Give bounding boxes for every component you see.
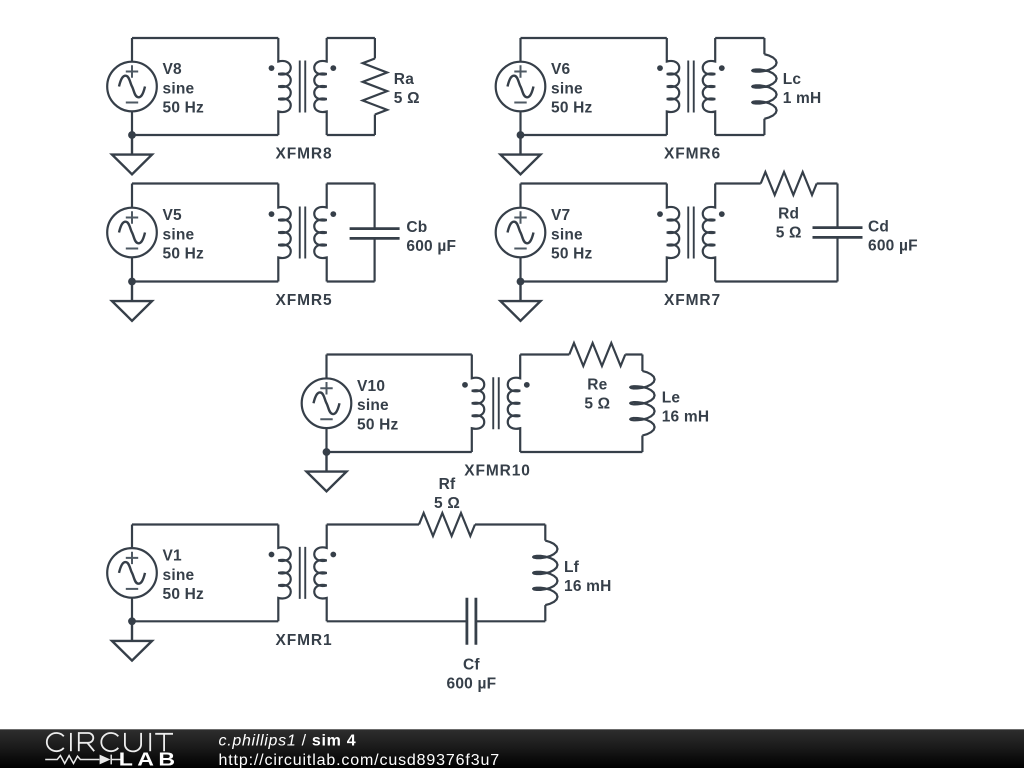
node: source negative junction — [128, 617, 136, 625]
label Lc value — [783, 71, 822, 107]
wire bottom rail secondary — [327, 134, 375, 136]
svg-text:50 Hz: 50 Hz — [551, 246, 593, 263]
voltage source V6 — [496, 62, 546, 112]
transformer XFMR8 — [278, 38, 326, 135]
node: source negative junction — [517, 131, 525, 139]
inductor Le — [630, 371, 654, 436]
wire bottom rail secondary right — [476, 620, 545, 622]
svg-text:sine: sine — [357, 397, 389, 414]
node: source negative junction — [517, 278, 525, 286]
wire resistor leads — [374, 38, 376, 135]
svg-text:c.phillips1 / sim 4: c.phillips1 / sim 4 — [219, 732, 357, 749]
wire source V1 leads — [131, 525, 133, 622]
svg-text:50 Hz: 50 Hz — [551, 100, 593, 117]
svg-text:5 Ω: 5 Ω — [434, 495, 460, 512]
wire top rail secondary — [327, 182, 375, 184]
wire bottom rail secondary — [327, 280, 375, 282]
transformer XFMR1 — [278, 525, 326, 622]
label Lf value — [564, 559, 612, 595]
wire top rail primary — [521, 182, 667, 184]
svg-text:Cf: Cf — [463, 657, 480, 674]
ground — [501, 135, 541, 174]
transformer XFMR6 — [667, 38, 715, 135]
wire top rail primary — [132, 182, 278, 184]
wire bottom rail secondary — [715, 134, 764, 136]
label V6 value text — [551, 61, 593, 116]
label V7 value text — [551, 207, 593, 262]
ground — [501, 282, 541, 321]
svg-text:V1: V1 — [163, 548, 183, 565]
svg-text:sine: sine — [163, 567, 195, 584]
ground — [112, 621, 152, 660]
transformer XFMR7 — [667, 184, 715, 282]
wire top rail secondary — [715, 37, 764, 39]
svg-text:1 mH: 1 mH — [783, 90, 822, 107]
svg-text:Lc: Lc — [783, 71, 802, 88]
svg-text:16 mH: 16 mH — [564, 578, 612, 595]
wire top rail secondary left — [520, 353, 569, 355]
svg-text:Cd: Cd — [868, 219, 889, 236]
phase dot primary XFMR6 — [657, 65, 663, 71]
wire bottom rail primary — [132, 280, 278, 282]
wire inductor leads — [763, 38, 765, 135]
resistor Rd — [761, 172, 817, 195]
wire bottom rail primary — [327, 451, 472, 453]
voltage source V5 — [107, 208, 157, 258]
svg-text:XFMR10: XFMR10 — [464, 463, 531, 480]
phase dot secondary XFMR8 — [330, 65, 336, 71]
logo schematic squiggle (resistor and diode) — [45, 755, 122, 765]
wire top rail secondary right — [625, 353, 642, 355]
svg-text:XFMR5: XFMR5 — [275, 292, 332, 309]
wire top rail secondary left — [715, 182, 761, 184]
svg-text:XFMR1: XFMR1 — [275, 632, 332, 649]
svg-text:V8: V8 — [163, 61, 183, 78]
label Le value — [662, 389, 710, 425]
phase dot secondary XFMR5 — [330, 211, 336, 217]
wire bottom rail secondary left — [327, 620, 467, 622]
phase dot primary XFMR1 — [269, 552, 275, 558]
label V8 value text — [163, 61, 205, 116]
resistor Rf — [419, 513, 475, 536]
label V1 value text — [163, 548, 205, 603]
wire top rail secondary right — [475, 523, 545, 525]
ground — [112, 135, 152, 174]
svg-text:Rd: Rd — [778, 205, 799, 222]
phase dot secondary XFMR1 — [330, 552, 336, 558]
svg-text:5 Ω: 5 Ω — [584, 395, 610, 412]
label Ra value — [394, 71, 420, 107]
svg-text:sine: sine — [551, 226, 583, 243]
footer bar — [0, 729, 1024, 768]
resistor Ra — [363, 59, 387, 115]
voltage source V7 — [496, 208, 546, 258]
svg-text:50 Hz: 50 Hz — [357, 416, 399, 433]
svg-text:V10: V10 — [357, 378, 385, 395]
phase dot primary XFMR7 — [657, 211, 663, 217]
svg-text:5 Ω: 5 Ω — [776, 224, 802, 241]
svg-text:XFMR7: XFMR7 — [664, 292, 721, 309]
svg-text:XFMR8: XFMR8 — [275, 146, 332, 163]
transformer XFMR5 — [278, 184, 326, 282]
svg-text:50 Hz: 50 Hz — [163, 246, 205, 263]
node: source negative junction — [128, 278, 136, 286]
svg-text:sine: sine — [551, 80, 583, 97]
voltage source V10 — [302, 378, 352, 428]
wire inductor leads — [544, 525, 546, 622]
svg-text:Le: Le — [662, 389, 681, 406]
svg-text:XFMR6: XFMR6 — [664, 146, 721, 163]
wire inductor leads — [641, 355, 643, 453]
svg-text:600 µF: 600 µF — [447, 676, 497, 693]
wire capacitor leads — [836, 184, 838, 282]
svg-text:50 Hz: 50 Hz — [163, 586, 205, 603]
wire source V8 leads — [131, 38, 133, 135]
phase dot primary XFMR10 — [462, 382, 468, 388]
ground — [307, 452, 347, 491]
wire source V10 leads — [325, 355, 327, 453]
node: source negative junction — [323, 448, 331, 456]
wire bottom rail primary — [521, 134, 667, 136]
inductor Lf — [533, 541, 557, 606]
svg-text:Re: Re — [587, 376, 607, 393]
phase dot primary XFMR5 — [269, 211, 275, 217]
transformer XFMR10 — [472, 355, 520, 453]
svg-text:5 Ω: 5 Ω — [394, 90, 420, 107]
label Cf value — [447, 657, 497, 693]
phase dot primary XFMR8 — [269, 65, 275, 71]
capacitor Cd — [813, 228, 863, 238]
wire bottom rail primary — [132, 134, 278, 136]
wire bottom rail secondary — [520, 451, 642, 453]
inductor Lc — [752, 54, 776, 119]
label V5 value text — [163, 207, 205, 262]
resistor Re — [569, 343, 625, 366]
svg-text:50 Hz: 50 Hz — [163, 100, 205, 117]
svg-text:Lf: Lf — [564, 559, 580, 576]
svg-text:600 µF: 600 µF — [868, 238, 918, 255]
wire capacitor leads — [374, 184, 376, 282]
label Rf value — [434, 476, 460, 512]
svg-text:600 µF: 600 µF — [406, 238, 456, 255]
svg-text:http://circuitlab.com/cusd8937: http://circuitlab.com/cusd89376f3u7 — [219, 752, 500, 768]
wire top rail secondary — [327, 37, 375, 39]
ground — [112, 282, 152, 321]
wire source V5 leads — [131, 184, 133, 282]
wire bottom rail primary — [132, 620, 278, 622]
phase dot secondary XFMR7 — [719, 211, 725, 217]
wire top rail secondary right — [817, 182, 838, 184]
wire bottom rail primary — [521, 280, 667, 282]
svg-text:Cb: Cb — [406, 219, 427, 236]
svg-text:Rf: Rf — [439, 476, 456, 493]
logo diode triangle — [100, 755, 111, 765]
svg-text:Ra: Ra — [394, 71, 414, 88]
svg-text:V7: V7 — [551, 207, 570, 224]
svg-text:sine: sine — [163, 80, 195, 97]
capacitor Cb — [350, 229, 400, 239]
wire top rail primary — [521, 37, 667, 39]
voltage source V1 — [107, 548, 157, 598]
svg-text:sine: sine — [163, 226, 195, 243]
wire top rail primary — [132, 37, 278, 39]
logo CIRCUIT lettering — [47, 733, 173, 751]
wire source V7 leads — [519, 184, 521, 282]
phase dot secondary XFMR10 — [524, 382, 530, 388]
voltage source V8 — [107, 62, 157, 112]
svg-text:16 mH: 16 mH — [662, 408, 710, 425]
wire source V6 leads — [519, 38, 521, 135]
node: source negative junction — [128, 131, 136, 139]
wire top rail secondary left — [327, 523, 419, 525]
svg-text:LAB: LAB — [119, 750, 180, 768]
wire top rail primary — [132, 523, 278, 525]
label Re value — [584, 376, 610, 412]
svg-text:V5: V5 — [163, 207, 183, 224]
svg-text:V6: V6 — [551, 61, 571, 78]
capacitor Cf — [467, 598, 476, 645]
label Cd value — [868, 219, 918, 255]
label Cb value — [406, 219, 456, 255]
phase dot secondary XFMR6 — [719, 65, 725, 71]
wire top rail primary — [327, 353, 472, 355]
label V10 value text — [357, 378, 399, 433]
wire bottom rail secondary — [715, 280, 837, 282]
label Rd value — [776, 205, 802, 241]
